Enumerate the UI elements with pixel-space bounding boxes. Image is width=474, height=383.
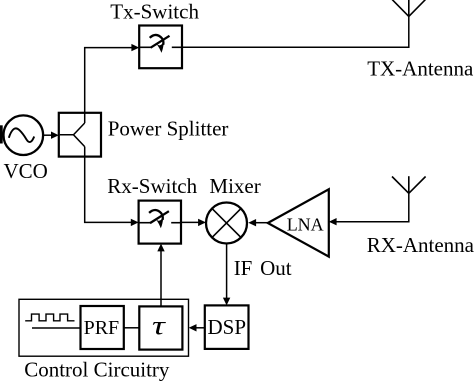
svg-text:IF Out: IF Out	[234, 256, 292, 280]
LNA amplifier U2	[268, 189, 329, 256]
PRF box	[81, 306, 124, 349]
power splitter box	[59, 113, 101, 157]
label IF Out	[234, 256, 292, 280]
wire splitter to Tx-Switch	[85, 48, 132, 113]
arrowhead into mixer right	[248, 219, 256, 226]
mixer circle X1	[206, 203, 247, 244]
arrowhead into control box	[189, 324, 197, 331]
svg-text:TX-Antenna: TX-Antenna	[367, 56, 474, 80]
Tx-Switch switch symbol	[140, 35, 181, 52]
label DSP	[208, 315, 247, 339]
label VCO	[4, 159, 48, 183]
wire RX antenna to LNA	[336, 193, 409, 221]
label tau	[152, 311, 167, 340]
RX antenna symbol	[392, 176, 426, 193]
wire LNA to mixer	[255, 222, 267, 224]
svg-text:Power Splitter: Power Splitter	[108, 116, 229, 140]
control circuitry outer box	[19, 299, 189, 356]
svg-text:RX-Antenna: RX-Antenna	[367, 233, 474, 257]
arrowhead into Rx-Switch	[131, 219, 139, 226]
label Power Splitter	[108, 116, 229, 140]
label PRF	[84, 317, 120, 339]
Rx-Switch switch symbol	[139, 210, 180, 227]
wire DSP to control box	[195, 327, 204, 329]
label Rx-Switch	[107, 174, 197, 198]
wire PRF to tau	[124, 327, 140, 329]
arrowhead into DSP	[223, 298, 230, 306]
label TX-Antenna	[367, 56, 474, 80]
power splitter Y symbol	[60, 113, 85, 157]
arrowhead into Tx-Switch	[131, 44, 139, 51]
arrowhead into Rx-Switch bottom	[157, 244, 164, 252]
VCO oscillator U1	[4, 115, 44, 155]
wire VCO to splitter	[44, 134, 52, 136]
svg-text:Control Circuitry: Control Circuitry	[24, 358, 170, 382]
svg-text:PRF: PRF	[84, 317, 120, 339]
label LNA	[287, 215, 324, 235]
svg-text:VCO: VCO	[4, 159, 48, 183]
DSP box	[205, 305, 249, 349]
svg-text:DSP: DSP	[208, 315, 247, 339]
TX antenna symbol	[392, 0, 425, 16]
arrowhead into mixer left	[198, 219, 206, 226]
wire tau to Rx-Switch	[160, 250, 162, 306]
waveform baseline wire into PRF	[32, 327, 81, 329]
label RX-Antenna	[367, 233, 474, 257]
Rx-Switch box SW2	[139, 201, 181, 244]
label Mixer	[209, 174, 260, 198]
Tx-Switch box SW1	[139, 26, 182, 69]
wire splitter to Rx-Switch	[85, 157, 132, 223]
mixer X	[212, 209, 241, 238]
svg-text:LNA: LNA	[287, 215, 324, 235]
arrowhead into splitter	[51, 132, 59, 139]
label Tx-Switch	[110, 0, 199, 23]
cropped arrow stub at left edge	[0, 125, 3, 143]
wire Tx-Switch to TX antenna	[182, 16, 409, 47]
tau delay box	[139, 306, 182, 349]
svg-text:Rx-Switch: Rx-Switch	[107, 174, 197, 198]
VCO sine wave	[9, 128, 34, 142]
svg-text:Mixer: Mixer	[209, 174, 260, 198]
label Control Circuitry	[24, 358, 170, 382]
pulse waveform symbol	[25, 314, 74, 321]
svg-text:Tx-Switch: Tx-Switch	[110, 0, 199, 23]
wire Rx-Switch to mixer	[181, 221, 199, 223]
svg-text:τ: τ	[152, 311, 167, 340]
arrowhead into LNA	[329, 218, 337, 225]
wire mixer to DSP	[226, 244, 228, 299]
